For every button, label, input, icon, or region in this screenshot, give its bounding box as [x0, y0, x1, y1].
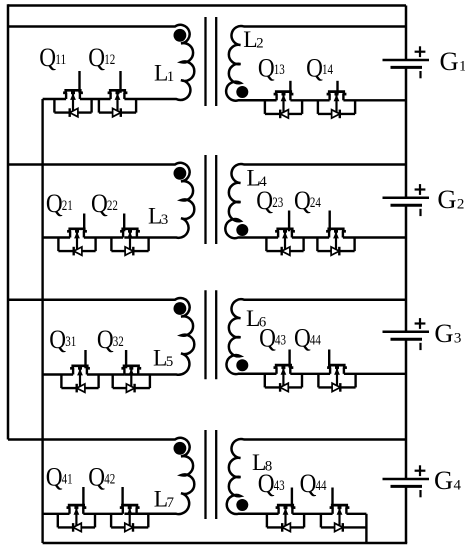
inductor L3 (transformer primary) with top wire — [8, 163, 194, 238]
body diode of Q13(r) — [280, 110, 288, 119]
svg-text:11: 11 — [55, 52, 66, 68]
label L6 — [246, 306, 267, 332]
body diode loop of Q11 — [54, 99, 91, 113]
body diode loop of Q22 — [111, 238, 148, 252]
label Q42 — [88, 462, 115, 492]
transistor Q31 — [70, 366, 90, 388]
body diode loop of Q42 — [111, 514, 148, 528]
transistor Q41 drain stub — [82, 487, 84, 508]
svg-text:8: 8 — [265, 459, 273, 475]
transistor Q21 drain stub — [83, 214, 85, 232]
inductor L5 (transformer primary) with top wire — [8, 298, 194, 375]
body diode loop of Q44(r) — [321, 514, 367, 543]
svg-text:31: 31 — [65, 334, 76, 350]
label G4 — [434, 465, 462, 495]
battery G3 — [383, 332, 430, 339]
battery G1 plus sign — [415, 46, 426, 57]
label Q21 — [46, 188, 73, 218]
svg-text:21: 21 — [62, 198, 73, 214]
transistor Q22 — [120, 229, 140, 251]
transistor Q43(r) — [276, 505, 296, 527]
polarity dot of L3 — [174, 167, 187, 180]
label G3 — [434, 318, 461, 348]
transistor Q44(r) drain stub — [331, 488, 333, 508]
wire bottom border — [43, 542, 408, 545]
transformer T4 core — [206, 430, 217, 519]
svg-text:1: 1 — [459, 59, 465, 75]
svg-text:43: 43 — [275, 332, 286, 348]
label L1 — [154, 60, 174, 86]
body diode loop of Q32 — [113, 375, 150, 389]
wire inner left bus — [41, 99, 43, 543]
inductor L6 (transformer secondary) with top wire — [226, 299, 406, 374]
transistor Q24(r) — [326, 229, 346, 251]
transistor Q21 — [67, 229, 87, 251]
label Q24 — [294, 185, 321, 215]
transistor Q41 — [67, 505, 87, 527]
transistor Q42 — [120, 505, 140, 527]
body diode of Q14(r) — [332, 110, 340, 119]
inductor L4 (transformer secondary) with top wire — [225, 164, 406, 238]
svg-text:43: 43 — [274, 478, 285, 494]
transistor Q12 — [108, 90, 128, 112]
svg-text:Q: Q — [49, 324, 66, 354]
svg-text:6: 6 — [259, 314, 267, 330]
battery G3 plus sign — [415, 318, 426, 329]
label Q41 — [46, 462, 73, 492]
transistor Q14(r) — [327, 92, 347, 114]
body diode loop of Q43(r) — [267, 514, 304, 528]
body diode of Q23(r) — [282, 247, 290, 256]
transistor Q43(r) — [274, 365, 294, 387]
polarity dot of L8 — [236, 499, 248, 511]
transformer T1 core — [206, 17, 217, 106]
body diode of Q43(r) — [282, 523, 290, 532]
svg-text:7: 7 — [167, 495, 175, 511]
transistor Q43(r) drain stub — [288, 350, 290, 368]
transformer T2 core — [206, 155, 217, 244]
polarity dot of L7 — [174, 442, 187, 455]
body diode of Q43(r) — [280, 383, 288, 392]
body diode of Q24(r) — [331, 247, 339, 256]
svg-text:44: 44 — [310, 332, 321, 348]
battery G2 plus sign — [415, 184, 426, 195]
label Q11 — [39, 42, 66, 72]
svg-text:Q: Q — [88, 42, 105, 72]
body diode of Q44(r) — [335, 523, 343, 532]
body diode loop of Q12 — [99, 99, 136, 113]
svg-text:2: 2 — [457, 196, 465, 212]
label Q22 — [91, 188, 118, 218]
transistor Q12 drain stub — [119, 71, 121, 93]
svg-text:G: G — [434, 465, 453, 495]
svg-text:Q: Q — [46, 188, 63, 218]
body diode of Q22 — [125, 247, 133, 256]
label Q43 — [258, 468, 285, 498]
battery G4 — [383, 479, 430, 486]
svg-text:41: 41 — [62, 471, 73, 487]
inductor L2 (transformer secondary) with top wire — [226, 26, 406, 101]
body diode of Q32 — [126, 384, 134, 393]
transistor Q14(r) drain stub — [336, 81, 338, 94]
label Q31 — [49, 324, 76, 354]
label Q12 — [88, 42, 115, 72]
body diode loop of Q24(r) — [317, 238, 354, 252]
svg-text:G: G — [437, 184, 456, 214]
label L3 — [148, 204, 168, 230]
transformer T3 core — [206, 290, 217, 379]
battery G1 — [383, 60, 430, 67]
svg-text:Q: Q — [306, 52, 323, 82]
body diode loop of Q41 — [58, 514, 95, 528]
label Q44 — [294, 323, 321, 353]
label Q14 — [306, 52, 333, 82]
svg-text:4: 4 — [259, 174, 267, 190]
battery G4 minus tick — [419, 490, 421, 497]
svg-text:Q: Q — [46, 462, 63, 492]
inductor L7 (transformer primary) with top wire — [8, 438, 194, 514]
transistor Q32 — [121, 366, 141, 388]
transistor Q43(r) drain stub — [291, 488, 293, 508]
label L7 — [154, 487, 175, 513]
transistor Q23(r) — [275, 229, 295, 251]
label L4 — [247, 166, 268, 192]
svg-text:1: 1 — [167, 69, 175, 85]
body diode of Q44(r) — [332, 383, 340, 392]
body diode loop of Q21 — [58, 238, 95, 252]
battery G2 minus tick — [419, 209, 421, 216]
body diode loop of Q44(r) — [318, 374, 355, 388]
polarity dot of L2 — [236, 86, 248, 98]
wire left border bus — [7, 4, 10, 439]
svg-text:G: G — [434, 318, 453, 348]
battery G4 plus sign — [415, 465, 426, 476]
transistor Q11 drain stub — [78, 71, 80, 93]
body diode of Q12 — [113, 108, 121, 117]
svg-text:Q: Q — [91, 188, 108, 218]
body diode of Q21 — [74, 247, 82, 256]
body diode of Q31 — [77, 384, 85, 393]
wire row 2 left source rail — [43, 236, 124, 238]
svg-text:2: 2 — [256, 36, 264, 52]
wire row 1 right source rail — [290, 99, 406, 101]
body diode of Q42 — [125, 523, 133, 532]
body diode of Q11 — [70, 108, 78, 117]
svg-text:Q: Q — [294, 323, 311, 353]
wire row 4 left source rail — [43, 513, 123, 515]
label L8 — [252, 450, 272, 476]
transistor Q23(r) drain stub — [288, 211, 290, 232]
body diode of Q41 — [73, 523, 81, 532]
svg-text:3: 3 — [454, 330, 462, 346]
svg-text:12: 12 — [104, 52, 115, 68]
wire row 2 right source rail — [292, 236, 406, 238]
svg-text:14: 14 — [322, 62, 333, 78]
battery G1 minus tick — [419, 71, 421, 78]
body diode loop of Q14(r) — [318, 100, 355, 114]
label Q44 — [300, 468, 327, 498]
polarity dot of L5 — [174, 302, 187, 315]
svg-text:Q: Q — [97, 324, 114, 354]
label Q13 — [258, 52, 285, 82]
svg-text:13: 13 — [274, 62, 285, 78]
svg-text:3: 3 — [161, 212, 169, 228]
svg-text:Q: Q — [39, 42, 56, 72]
transistor Q44(r) — [330, 505, 350, 527]
body diode loop of Q31 — [61, 375, 98, 389]
svg-text:44: 44 — [316, 478, 327, 494]
wire right battery bus — [405, 6, 408, 544]
label Q43 — [259, 323, 286, 353]
label L2 — [243, 27, 263, 53]
label Q32 — [97, 324, 124, 354]
wire row 1 left source rail — [43, 98, 111, 100]
label L5 — [153, 346, 173, 372]
wire top border (positive bus) — [8, 4, 406, 7]
wire row 3 right source rail — [290, 373, 406, 375]
svg-text:Q: Q — [88, 462, 105, 492]
transistor Q31 drain stub — [84, 350, 86, 368]
label Q23 — [256, 185, 283, 215]
svg-text:4: 4 — [454, 478, 462, 494]
transistor Q11 — [63, 90, 83, 112]
transistor Q42 drain stub — [121, 487, 123, 508]
transistor Q22 drain stub — [123, 214, 125, 232]
inductor L1 (transformer primary) with top wire — [8, 25, 194, 100]
svg-text:22: 22 — [107, 198, 118, 214]
battery G3 minus tick — [419, 343, 421, 350]
body diode loop of Q43(r) — [265, 374, 302, 388]
svg-text:Q: Q — [300, 468, 317, 498]
svg-text:Q: Q — [294, 185, 311, 215]
wire row 3 left source rail — [43, 373, 125, 375]
inductor L8 (transformer secondary) with top wire — [227, 439, 406, 514]
svg-text:G: G — [440, 46, 459, 76]
svg-text:5: 5 — [166, 354, 174, 370]
polarity dot of L6 — [236, 359, 248, 371]
polarity dot of L1 — [174, 29, 187, 42]
svg-text:42: 42 — [104, 471, 115, 487]
body diode loop of Q23(r) — [266, 238, 303, 252]
label G1 — [440, 46, 465, 76]
transistor Q44(r) drain stub — [328, 350, 330, 368]
svg-text:24: 24 — [310, 195, 321, 211]
svg-text:Q: Q — [258, 52, 275, 82]
transistor Q44(r) — [327, 365, 347, 387]
transistor Q13(r) drain stub — [289, 81, 291, 94]
label G2 — [437, 184, 464, 214]
wire row 4 right source rail — [292, 513, 366, 515]
polarity dot of L4 — [236, 224, 248, 236]
svg-text:32: 32 — [113, 334, 124, 350]
battery G2 — [383, 198, 430, 205]
transistor Q32 drain stub — [125, 350, 127, 368]
svg-text:23: 23 — [272, 195, 283, 211]
transistor Q13(r) — [274, 92, 294, 114]
body diode loop of Q13(r) — [265, 100, 302, 114]
transistor Q24(r) drain stub — [329, 211, 331, 232]
